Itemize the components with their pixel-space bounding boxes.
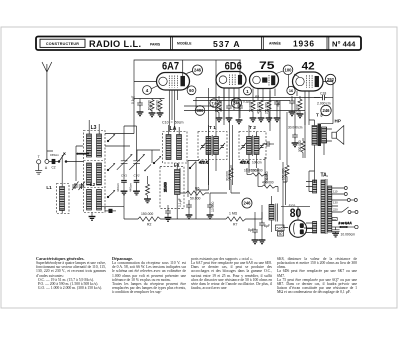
- circled voltage 1: [244, 87, 252, 95]
- svg-text:4: 4: [146, 88, 149, 93]
- svg-text:300: 300: [197, 108, 205, 113]
- circled voltage 252: [325, 74, 335, 84]
- constructeur box: [40, 39, 85, 47]
- wire 42 plate to T3: [309, 82, 333, 126]
- svg-text:4µF: 4µF: [276, 101, 280, 107]
- svg-text:30.000cm: 30.000cm: [288, 126, 303, 130]
- svg-text:0,1µF: 0,1µF: [243, 100, 251, 104]
- tube 6D6 envelope U2: [216, 60, 246, 88]
- wire HT bus y112: [184, 98, 305, 111]
- resistor R9 under 75: [258, 100, 265, 122]
- wire 75 pins down: [253, 89, 275, 101]
- circled voltage 60: [187, 86, 196, 95]
- svg-text:ANNÉE: ANNÉE: [269, 41, 282, 46]
- svg-text:T 1: T 1: [209, 125, 216, 131]
- resistor R13 right column: [301, 138, 305, 158]
- terre terminal T: [35, 160, 42, 174]
- antenna: [42, 62, 52, 160]
- antenna coupling capacitor C2: [49, 159, 58, 163]
- mains filter capacitor C20: [332, 227, 340, 237]
- svg-text:246: 246: [323, 108, 331, 113]
- circled voltage 246 right: [321, 105, 331, 115]
- svg-text:RADIO L.L.: RADIO L.L.: [89, 39, 142, 49]
- wire antenna node to coils: [47, 146, 83, 181]
- svg-text:LA: LA: [170, 126, 177, 132]
- tube 42 envelope U4: [293, 72, 324, 91]
- resistor R3 under 6A7: [149, 99, 156, 117]
- trimmer capacitor C4: [79, 182, 86, 191]
- wire T3 down to TA: [315, 143, 325, 183]
- svg-text:50.000: 50.000: [190, 197, 200, 201]
- svg-text:10.000: 10.000: [296, 104, 300, 114]
- resistor R11 under 42: [297, 96, 304, 118]
- coil shield bar: [76, 153, 89, 155]
- svg-text:10.000cm: 10.000cm: [341, 232, 356, 236]
- T2 windings and core: [247, 125, 260, 173]
- svg-text:10.000: 10.000: [211, 202, 215, 212]
- T1 trimmer capacitor right: [220, 143, 226, 150]
- wire T2 secondary down: [265, 91, 270, 187]
- grid return wire: [152, 150, 160, 163]
- coil L1 winding: [60, 155, 65, 214]
- electrolytic capacitor 8uF B: [252, 212, 259, 244]
- tube 75 envelope U3: [250, 72, 279, 89]
- wire detector verticals: [280, 98, 305, 163]
- wire grid return T1: [224, 88, 233, 190]
- trimmer capacitor C3: [72, 182, 79, 191]
- svg-text:R2: R2: [147, 223, 151, 227]
- svg-text:300.000: 300.000: [298, 140, 302, 152]
- coil L4 windings lower: [87, 190, 102, 211]
- capacitor C21 under 6D6 second: [237, 104, 243, 118]
- T1 trimmer capacitor left: [200, 143, 206, 150]
- svg-text:130: 130: [333, 201, 338, 205]
- audio capacitor C24: [207, 193, 214, 219]
- resistor 150.000 vertical right: [285, 162, 289, 182]
- long wires centre-bottom: [231, 168, 287, 193]
- circled voltage 300: [195, 106, 205, 116]
- svg-text:246: 246: [244, 201, 252, 206]
- svg-text:472 K.: 472 K.: [199, 161, 209, 165]
- coil box L3 L2 dashed enclosure: [84, 131, 106, 213]
- bottom HT bus with resistors: [96, 207, 262, 222]
- svg-text:L1: L1: [46, 185, 52, 190]
- padder capacitor C6: [133, 180, 140, 195]
- text column 3: [191, 257, 272, 290]
- wire 6A7 pins down: [169, 90, 177, 132]
- resistor R1 grid leak: [144, 165, 151, 203]
- svg-text:100: 100: [285, 68, 293, 73]
- capacitor C14 under 75: [274, 100, 281, 122]
- circled voltage 100: [283, 65, 293, 75]
- rectifier tube 80 U5: [289, 220, 306, 237]
- svg-text:50.000: 50.000: [249, 102, 253, 112]
- wire CV to coil tops: [105, 96, 137, 146]
- resistor R5 under 6D6: [216, 96, 223, 122]
- svg-text:20.000: 20.000: [156, 100, 160, 110]
- capacitor C13 beside T2: [263, 141, 275, 147]
- circled voltage 246 mid: [232, 98, 242, 108]
- coil L2 windings: [87, 163, 102, 185]
- resistor R8 under 75: [250, 100, 257, 122]
- padding capacitor C7: [165, 205, 172, 221]
- svg-text:50.000: 50.000: [148, 100, 152, 110]
- svg-text:2 ou 0,6 A: 2 ou 0,6 A: [338, 221, 352, 225]
- svg-text:1 MΩ: 1 MΩ: [229, 212, 238, 216]
- svg-text:PARIS: PARIS: [150, 42, 161, 46]
- svg-text:7,6: 7,6: [211, 102, 216, 106]
- svg-text:75: 75: [259, 60, 275, 72]
- divider 1: [170, 37, 172, 51]
- svg-text:220: 220: [333, 208, 338, 212]
- header outer box: [36, 37, 361, 51]
- wire 75 plate to 42 grid: [275, 71, 299, 88]
- svg-text:CV2: CV2: [133, 174, 139, 178]
- svg-text:440cm: 440cm: [116, 182, 120, 192]
- svg-text:110: 110: [333, 189, 338, 193]
- tuning gang capacitor CV2: [129, 126, 144, 180]
- svg-text:T 3: T 3: [316, 113, 323, 118]
- svg-text:MODÈLE: MODÈLE: [177, 41, 192, 46]
- svg-text:537 A: 537 A: [213, 39, 241, 49]
- svg-text:T: T: [38, 155, 40, 159]
- svg-text:60: 60: [189, 88, 194, 93]
- oscillator coil LA dashed box: [163, 132, 188, 164]
- text column 2 depannage: [112, 257, 186, 294]
- wire 80 anode HT: [281, 162, 310, 228]
- svg-text:472 K.: 472 K.: [240, 161, 250, 165]
- svg-text:100cm: 100cm: [252, 161, 262, 165]
- filter choke L6: [269, 196, 277, 232]
- padder capacitor C5: [121, 180, 128, 206]
- TA primary taps: [332, 187, 358, 221]
- wire antenna to L3: [67, 161, 84, 163]
- svg-text:25.000: 25.000: [164, 182, 168, 192]
- resistor 100.000 horizontal: [247, 173, 267, 176]
- svg-text:C2: C2: [52, 166, 56, 170]
- svg-text:16: 16: [289, 89, 293, 93]
- electrolytic capacitor 8uF A: [259, 205, 266, 244]
- circled voltage 76 cathode 6D6: [210, 99, 218, 107]
- antenna terminal A: [45, 160, 49, 164]
- T2 trimmer capacitor left: [241, 143, 247, 150]
- switch arrow wave-band S4: [107, 191, 115, 198]
- wire 80 filament to TA: [307, 171, 315, 229]
- svg-text:400.000: 400.000: [219, 100, 223, 112]
- wire top loop around 6A7: [134, 60, 241, 131]
- circled voltage 246 low: [242, 198, 252, 208]
- circled voltage 4: [143, 86, 152, 95]
- oscillator section wires: [188, 161, 199, 198]
- output transformer T3 windings: [312, 124, 327, 147]
- boxed rating 545: [276, 225, 285, 231]
- switch arrow S6 oscillator: [189, 162, 196, 169]
- wire CV2 to oscillator coil: [137, 150, 152, 160]
- svg-text:150.000: 150.000: [282, 168, 286, 180]
- svg-text:L5: L5: [174, 162, 180, 167]
- switch arrow S5 oscillator: [153, 157, 161, 164]
- svg-text:150.000: 150.000: [141, 212, 153, 216]
- wire 42 pins down: [297, 91, 309, 125]
- svg-text:0,1µF: 0,1µF: [131, 96, 135, 104]
- svg-text:1936: 1936: [293, 39, 315, 49]
- svg-text:246: 246: [194, 68, 202, 73]
- svg-text:42: 42: [302, 61, 315, 73]
- svg-text:400.000: 400.000: [257, 102, 261, 114]
- svg-text:CONSTRUCTEUR: CONSTRUCTEUR: [46, 42, 79, 46]
- divider 3: [326, 37, 328, 51]
- svg-text:2.000cm: 2.000cm: [317, 102, 331, 106]
- circled voltage 16: [287, 86, 295, 94]
- svg-text:C18: C18: [320, 92, 326, 96]
- resistor R12 30000 vertical: [229, 165, 233, 193]
- TA tap voltage labels: [333, 189, 338, 211]
- wire grid bus y100: [184, 101, 290, 107]
- svg-text:L2: L2: [90, 182, 96, 187]
- svg-text:8µF: 8µF: [248, 228, 254, 232]
- svg-text:0,4 A.: 0,4 A.: [289, 203, 296, 207]
- ground 6D6 cathode: [236, 120, 243, 124]
- svg-text:TA.: TA.: [321, 173, 329, 179]
- coil L5 winding: [175, 163, 181, 219]
- capacitor C11 under 6D6: [226, 104, 233, 122]
- coil LA windings: [166, 125, 182, 160]
- power transformer TA windings: [313, 179, 332, 234]
- coil L3 windings: [87, 120, 102, 157]
- switch arrow wave-band S3: [107, 164, 115, 171]
- coil L1 dashed box: [57, 184, 70, 214]
- TA filament leads left: [304, 182, 313, 233]
- wire AVC line long vertical: [196, 88, 209, 190]
- text column 1 caracteristiques: [36, 257, 106, 290]
- svg-text:100.000: 100.000: [265, 171, 269, 183]
- coil L5 dashed box: [160, 166, 184, 208]
- capacitor C7 black block: [105, 207, 116, 213]
- wire heater bus y97.5: [196, 97, 320, 99]
- tuning gang capacitor CV1: [117, 126, 132, 180]
- divider 2: [261, 37, 263, 51]
- svg-text:R5: R5: [255, 95, 259, 99]
- svg-text:50: 50: [279, 232, 283, 236]
- svg-text:N° 444: N° 444: [332, 39, 356, 48]
- svg-text:±65cm: ±65cm: [50, 153, 59, 157]
- svg-text:6A7: 6A7: [162, 60, 179, 72]
- svg-text:0,1µF: 0,1µF: [178, 198, 182, 207]
- audio coupling capacitor C15: [186, 200, 193, 219]
- svg-text:0,1µF: 0,1µF: [231, 99, 239, 103]
- svg-text:440cm: 440cm: [129, 182, 133, 192]
- T1 windings and core: [206, 125, 219, 185]
- svg-text:L3: L3: [91, 125, 97, 131]
- ground under coil block: [89, 213, 96, 221]
- switch S1 antenna: [58, 152, 67, 162]
- audio resistor R6 50000: [180, 191, 209, 195]
- mains switch S7: [332, 225, 359, 228]
- IF transformer T2 dashed box: [239, 132, 266, 160]
- svg-text:80: 80: [290, 208, 302, 220]
- svg-text:250.000: 250.000: [265, 102, 269, 114]
- switch arrow wave-band S2: [107, 135, 115, 142]
- capacitor C16 under 42: [289, 96, 296, 116]
- wire 6D6 pins down: [224, 88, 239, 120]
- capacitor C9 under 6A7: [137, 99, 144, 116]
- svg-text:HP: HP: [335, 119, 341, 124]
- tap label box 230: [332, 218, 337, 221]
- svg-text:R7: R7: [233, 223, 237, 227]
- svg-text:CV1: CV1: [121, 174, 127, 178]
- resistor R4 under 6A7: [157, 99, 164, 117]
- resistor R10 under 75: [266, 100, 273, 122]
- svg-text:30.000: 30.000: [226, 171, 230, 181]
- tube 6A7 envelope U1: [157, 60, 194, 90]
- speaker HP cone: [327, 126, 344, 145]
- text column 4: [277, 257, 357, 294]
- capacitor C19 right column: [292, 131, 299, 147]
- svg-text:545: 545: [277, 227, 283, 231]
- svg-text:6D6: 6D6: [225, 61, 242, 73]
- boxed rating 50: [278, 231, 284, 236]
- svg-text:T 2: T 2: [249, 125, 256, 131]
- svg-text:8µF: 8µF: [264, 224, 270, 228]
- IF transformer T1 dashed box: [198, 132, 227, 160]
- tone capacitor C18: [314, 95, 333, 101]
- wire audio section: [180, 168, 227, 193]
- svg-text:10.000cm: 10.000cm: [244, 169, 259, 173]
- T2 trimmer capacitor right: [259, 143, 265, 150]
- svg-text:300: 300: [215, 106, 219, 112]
- resistor 400.000 horizontal: [258, 185, 278, 188]
- circled voltage 246 top: [193, 65, 203, 75]
- vertical line from L5 to bus: [195, 162, 197, 220]
